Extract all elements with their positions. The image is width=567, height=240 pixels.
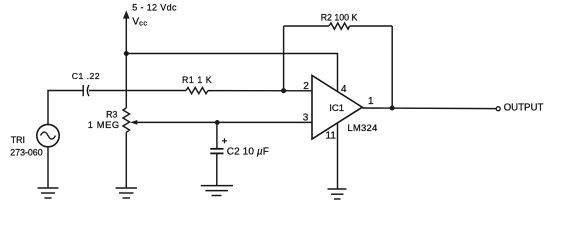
svg-text:1 MEG: 1 MEG bbox=[88, 120, 120, 130]
wire feedback down to output bbox=[391, 26, 393, 108]
wire R1 to op-amp pin 2 bbox=[208, 90, 312, 92]
op-amp IC1 bbox=[312, 76, 362, 140]
svg-text:R3: R3 bbox=[106, 109, 117, 119]
signal source TRI 273-060 bbox=[37, 124, 59, 146]
wire top rail right of R2 bbox=[350, 25, 393, 27]
wire R3 bottom to ground bbox=[125, 132, 127, 188]
svg-text:5 - 12 Vdc: 5 - 12 Vdc bbox=[132, 3, 177, 13]
ground under source bbox=[38, 188, 59, 198]
svg-text:11: 11 bbox=[326, 131, 337, 142]
wire C1 to R1 bbox=[89, 90, 186, 92]
node C2 junction bbox=[215, 120, 220, 125]
plus sign of C2 bbox=[222, 138, 227, 143]
svg-text:1: 1 bbox=[368, 96, 374, 107]
wire input to C1 bbox=[48, 91, 83, 125]
node feedback junction bbox=[281, 88, 286, 93]
svg-text:4: 4 bbox=[341, 84, 347, 95]
ground under R3 bbox=[116, 188, 138, 198]
svg-text:R2 100 K: R2 100 K bbox=[321, 12, 358, 22]
wire feedback riser bbox=[283, 26, 285, 91]
svg-text:3: 3 bbox=[303, 113, 309, 124]
output terminal bbox=[496, 107, 500, 111]
wiper arrow of R3 bbox=[130, 120, 137, 125]
svg-text:IC1: IC1 bbox=[329, 103, 344, 114]
wire C2 to ground bbox=[216, 153, 218, 185]
svg-text:LM324: LM324 bbox=[347, 123, 377, 134]
Vcc supply arrow bbox=[123, 10, 130, 53]
resistor R1 bbox=[186, 88, 208, 94]
wire Vcc junction down to R3 bbox=[125, 54, 127, 109]
ground under C2 bbox=[201, 186, 233, 196]
svg-text:C1 .22: C1 .22 bbox=[72, 71, 100, 81]
capacitor C2 bbox=[210, 149, 223, 154]
svg-text:273-060: 273-060 bbox=[10, 147, 42, 157]
wire source to ground bbox=[47, 147, 49, 188]
wire Vcc rail to pin 4 bbox=[126, 54, 337, 92]
svg-text:R1 1 K: R1 1 K bbox=[182, 75, 212, 85]
svg-text:2: 2 bbox=[303, 81, 309, 92]
svg-text:Vcc: Vcc bbox=[132, 16, 147, 27]
potentiometer R3 bbox=[123, 108, 130, 132]
resistor R2 bbox=[329, 23, 350, 29]
wire junction down to C2 bbox=[216, 122, 218, 148]
node output junction bbox=[390, 106, 395, 111]
capacitor C1 bbox=[83, 85, 89, 96]
wire pin 11 to ground bbox=[337, 123, 339, 189]
svg-text:TRI: TRI bbox=[11, 135, 25, 145]
svg-text:OUTPUT: OUTPUT bbox=[504, 103, 544, 114]
svg-text:C2 10 µF: C2 10 µF bbox=[227, 147, 269, 158]
wire output bbox=[362, 107, 496, 110]
node Vcc junction bbox=[124, 51, 129, 56]
wire top rail left of R2 bbox=[284, 25, 329, 27]
wire wiper to op-amp pin 3 bbox=[136, 121, 313, 123]
ground under op-amp bbox=[328, 189, 347, 199]
